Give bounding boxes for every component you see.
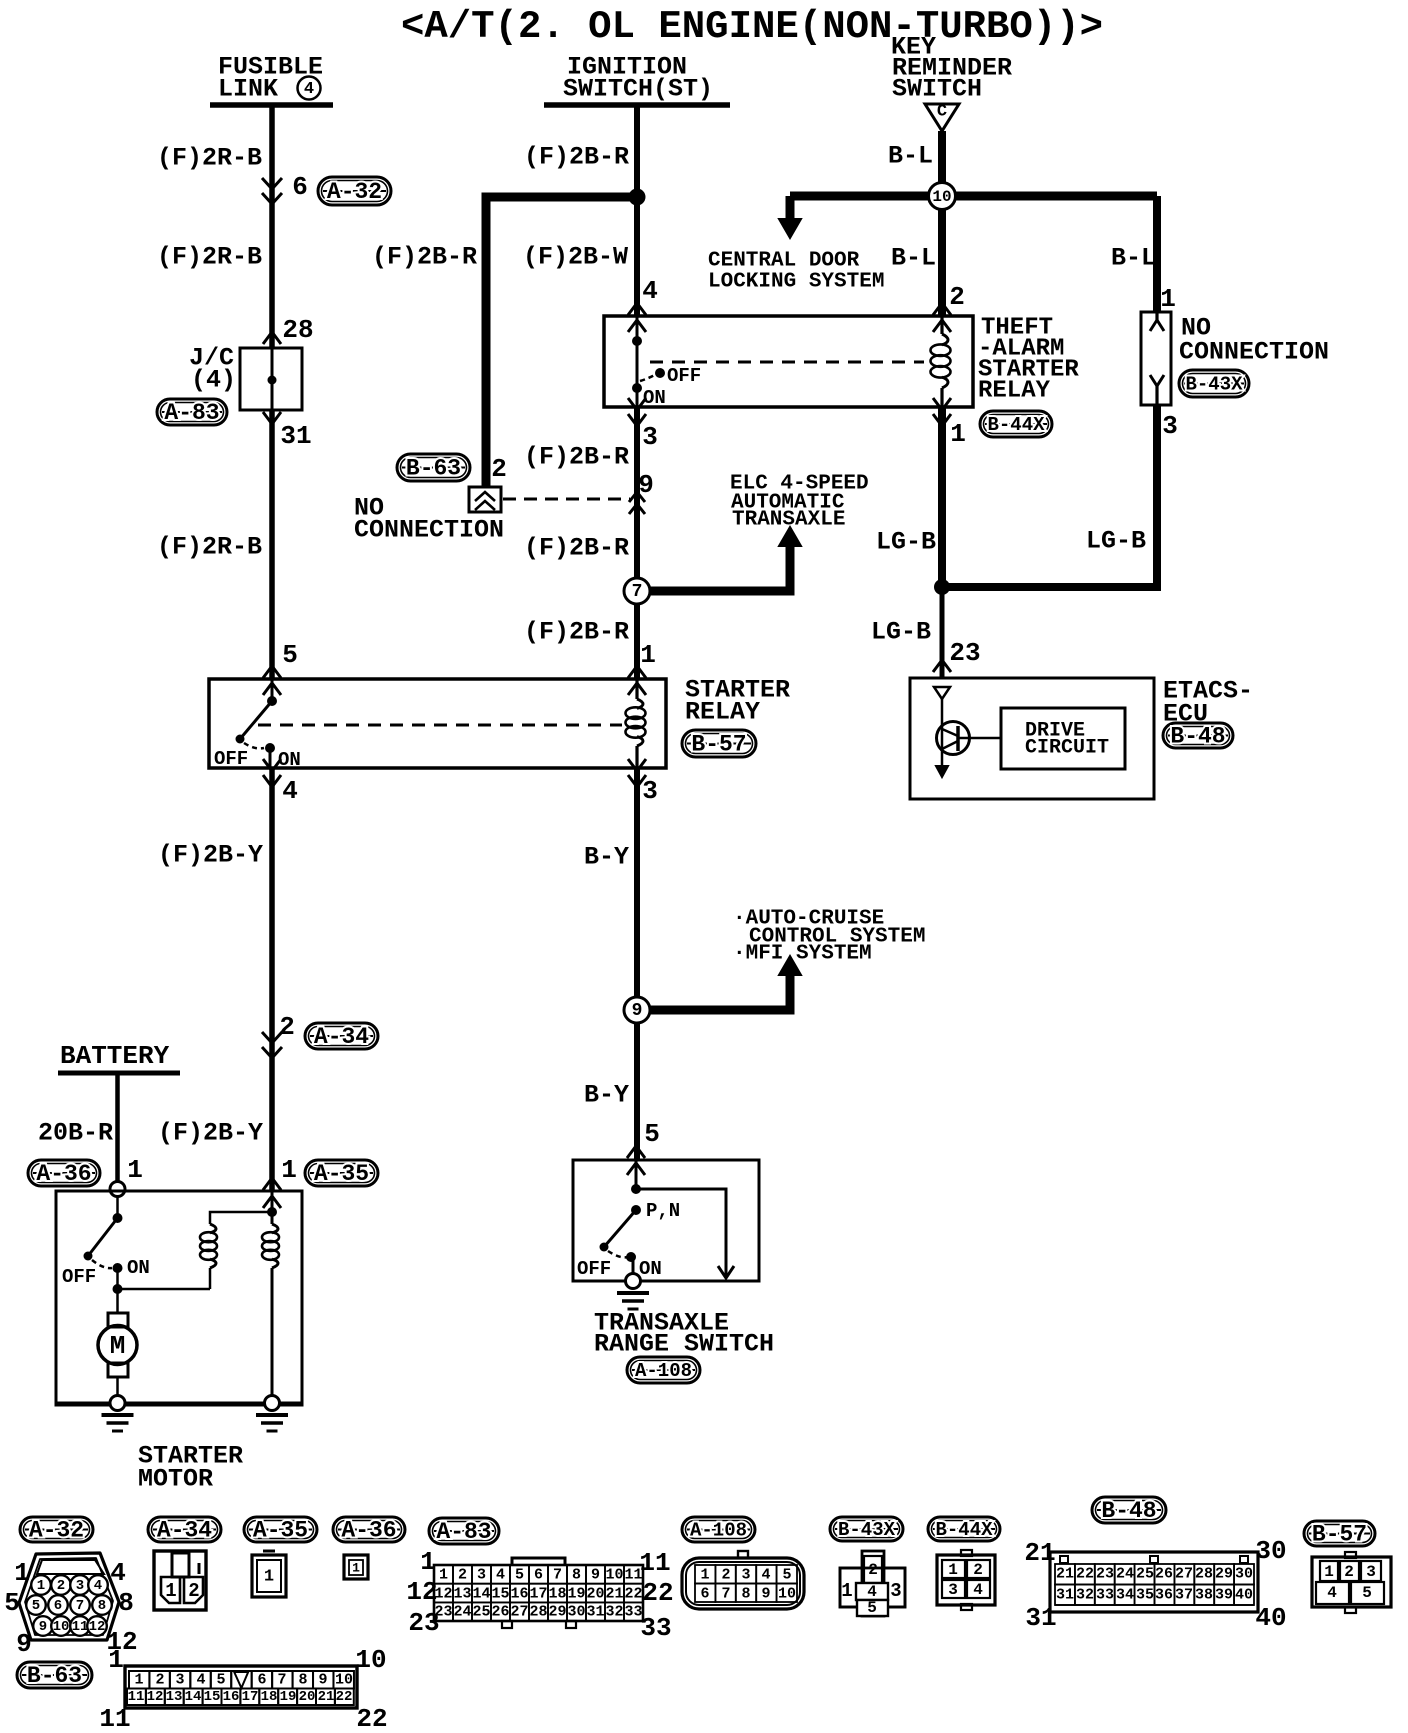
connector label stadium A-108 bottom <box>682 1517 755 1542</box>
connector label stadium B-48 bottom <box>1092 1497 1166 1523</box>
A-83 cell 33 <box>624 1602 643 1621</box>
relay box STARTER RELAY <box>209 679 666 768</box>
svg-text:24: 24 <box>453 1604 471 1621</box>
A-32 cavity 11 <box>70 1616 90 1636</box>
svg-text:(F)2R-B: (F)2R-B <box>157 533 262 562</box>
B-43X cavity 4 box <box>856 1583 888 1600</box>
pin chevron entering starter motor from A-35 <box>263 1178 281 1190</box>
svg-text:3: 3 <box>175 1672 184 1689</box>
B-48 cell 32 <box>1075 1585 1095 1606</box>
B-63 cell top 2 <box>149 1671 169 1689</box>
B-48 cell 23 <box>1095 1564 1115 1585</box>
svg-text:30: 30 <box>1255 1536 1286 1566</box>
svg-text:B-48: B-48 <box>1101 1498 1156 1524</box>
svg-text:21: 21 <box>605 1586 623 1603</box>
svg-text:10: 10 <box>778 1586 796 1603</box>
pull-in coil top lead <box>210 1212 272 1224</box>
svg-text:10: 10 <box>932 188 951 206</box>
connector label stadium B-57 <box>682 730 756 757</box>
svg-text:A-83: A-83 <box>164 400 219 426</box>
battery terminal circle on starter motor box <box>110 1182 125 1197</box>
wire LG-B key reminder column to ETACS <box>938 407 946 587</box>
connector label stadium A-108 body <box>627 1357 700 1383</box>
B-48 top tabs <box>1060 1556 1068 1563</box>
svg-text:B-44X: B-44X <box>935 1519 993 1541</box>
svg-text:SWITCH: SWITCH <box>892 75 982 104</box>
svg-text:2: 2 <box>458 1567 467 1584</box>
svg-text:4: 4 <box>304 80 314 99</box>
A-83 cell 4 <box>491 1565 510 1584</box>
A-108 cell 3 <box>736 1565 756 1584</box>
A-32 cavity 8 <box>92 1595 112 1615</box>
hold coil junction dot <box>267 1207 277 1217</box>
wire (F)2B-R ignition column top segment <box>634 105 640 316</box>
dashed link B-63 to pin 9 <box>503 498 630 501</box>
svg-text:4: 4 <box>110 1558 126 1588</box>
svg-text:CENTRAL DOOR: CENTRAL DOOR <box>708 250 860 273</box>
starter relay coil wire to pin 3 <box>635 746 638 768</box>
svg-text:(F)2B-R: (F)2B-R <box>372 243 477 272</box>
A-108 cell 1 <box>695 1565 715 1584</box>
connector label stadium A-35 <box>305 1160 378 1186</box>
B-57 cavity 4 <box>1316 1582 1349 1604</box>
svg-text:4: 4 <box>1327 1584 1337 1602</box>
svg-text:38: 38 <box>1195 1587 1213 1604</box>
svg-text:B-Y: B-Y <box>584 843 629 872</box>
svg-text:22: 22 <box>642 1578 673 1608</box>
svg-text:2: 2 <box>279 1012 295 1042</box>
B-57 cavity 3 <box>1361 1561 1381 1581</box>
A-83 cell 29 <box>548 1602 567 1621</box>
connector label stadium B-63 <box>397 454 470 481</box>
theft relay coil <box>942 334 948 345</box>
starter motor switch arm tip dot <box>84 1252 93 1261</box>
svg-text:A-108: A-108 <box>690 1520 747 1542</box>
pin chevron exiting J/C <box>263 412 281 424</box>
connector B-43X face <box>840 1568 905 1607</box>
A-83 cell 27 <box>510 1602 529 1621</box>
B-63 cell top 6 <box>252 1671 272 1689</box>
wire B-L from key reminder switch <box>938 131 946 316</box>
svg-text:A-35: A-35 <box>253 1518 308 1544</box>
A-83 cell 26 <box>491 1602 510 1621</box>
svg-text:5: 5 <box>216 1672 225 1689</box>
transaxle case ground circle <box>626 1274 641 1289</box>
starter relay wire to pin 4 <box>269 748 272 768</box>
connector label stadium A-35 bottom <box>244 1517 317 1542</box>
motor M symbol <box>98 1326 137 1365</box>
circled splice 7 <box>624 578 650 604</box>
ETACS wire triangle to transistor <box>941 699 944 766</box>
svg-text:CIRCUIT: CIRCUIT <box>1025 737 1109 760</box>
svg-text:4: 4 <box>94 1578 102 1594</box>
B-44X cavity 2 <box>967 1560 990 1578</box>
connector A-108 face <box>682 1558 804 1609</box>
svg-text:OFF: OFF <box>62 1266 96 1288</box>
svg-text:5: 5 <box>644 1119 660 1149</box>
A-108 cell 5 <box>777 1565 797 1584</box>
svg-text:CONNECTION: CONNECTION <box>354 516 504 545</box>
ground terminal circle left <box>110 1396 125 1411</box>
svg-text:(F)2B-R: (F)2B-R <box>524 534 629 563</box>
no-connection box B-43X <box>1141 312 1171 405</box>
svg-text:B-57: B-57 <box>691 732 746 758</box>
B-48 cell 27 <box>1174 1564 1194 1585</box>
svg-text:33: 33 <box>1096 1587 1114 1604</box>
svg-text:35: 35 <box>1136 1587 1154 1604</box>
connector label stadium A-32 bottom <box>20 1517 93 1542</box>
svg-text:11: 11 <box>639 1548 670 1578</box>
starter relay coil <box>637 699 643 708</box>
svg-text:1: 1 <box>1160 284 1176 314</box>
svg-text:3: 3 <box>741 1567 750 1584</box>
connector A-32 inline marker on wire <box>262 178 282 204</box>
B-48 cell 30 <box>1234 1564 1254 1585</box>
theft relay dashed actuation line <box>650 361 924 364</box>
svg-text:30: 30 <box>567 1604 585 1621</box>
svg-text:A-108: A-108 <box>635 1360 692 1382</box>
svg-text:A-36: A-36 <box>341 1518 396 1544</box>
theft relay coil wire to pin 1 <box>940 388 943 407</box>
A-83 cell 18 <box>548 1584 567 1603</box>
svg-text:9: 9 <box>638 470 654 500</box>
svg-text:B-57: B-57 <box>1312 1522 1367 1548</box>
B-44X cavity 4 <box>967 1580 990 1598</box>
connector A-36 face <box>344 1555 368 1579</box>
junction dot inside J/C <box>268 376 277 385</box>
transaxle switch arm tip dot <box>600 1243 609 1252</box>
svg-text:OFF: OFF <box>577 1258 611 1280</box>
connector B-48 face <box>1050 1552 1258 1612</box>
svg-text:19: 19 <box>280 1689 297 1705</box>
svg-text:B-43X: B-43X <box>838 1519 896 1541</box>
theft relay switch wire from pin 4 <box>636 316 639 341</box>
B-63 cell top keyway <box>231 1671 251 1689</box>
B-63 cell 12 <box>146 1689 165 1706</box>
B-63 cell top 4 <box>190 1671 210 1689</box>
svg-text:2: 2 <box>973 1561 983 1579</box>
transaxle switch wire from pin 5 <box>635 1160 638 1189</box>
svg-text:1: 1 <box>14 1558 30 1588</box>
A-32 cavity 1 <box>31 1575 51 1595</box>
svg-text:9: 9 <box>16 1629 32 1659</box>
svg-text:23: 23 <box>1096 1566 1114 1583</box>
svg-text:29: 29 <box>1215 1566 1233 1583</box>
motor brush lower <box>108 1363 128 1377</box>
B-63 cell 16 <box>222 1689 241 1706</box>
B-57 cavity 5 <box>1351 1582 1384 1604</box>
ignition switch bus bar <box>544 102 730 108</box>
A-83 cell 2 <box>453 1565 472 1584</box>
wire motor to ground <box>116 1377 119 1398</box>
svg-text:(F)2B-R: (F)2B-R <box>524 143 629 172</box>
svg-text:10: 10 <box>355 1645 386 1675</box>
motor brush upper <box>108 1313 128 1327</box>
svg-text:6: 6 <box>54 1598 62 1614</box>
A-83 cell 17 <box>529 1584 548 1603</box>
wire (F)2R-B segment to starter relay <box>269 410 275 679</box>
connector A-108 tab <box>738 1551 748 1558</box>
svg-text:8: 8 <box>98 1598 106 1614</box>
svg-text:5: 5 <box>515 1567 524 1584</box>
starter relay OFF contact dot <box>236 735 245 744</box>
svg-text:LG-B: LG-B <box>871 618 931 647</box>
svg-text:14: 14 <box>472 1586 490 1603</box>
svg-text:4: 4 <box>761 1567 770 1584</box>
starter motor switch pivot dot <box>113 1213 123 1223</box>
svg-text:B-L: B-L <box>1111 244 1156 273</box>
A-83 cell 14 <box>472 1584 491 1603</box>
connector label stadium B-44X <box>980 411 1052 437</box>
svg-text:1: 1 <box>352 1561 360 1576</box>
wire coil return horizontal <box>118 1288 211 1291</box>
svg-text:10: 10 <box>53 1619 70 1635</box>
B-48 cell 25 <box>1135 1564 1155 1585</box>
wire transistor to drive circuit <box>958 737 1001 740</box>
A-83 cell 7 <box>548 1565 567 1584</box>
svg-text:(F)2R-B: (F)2R-B <box>157 243 262 272</box>
theft relay dashed OFF link <box>640 374 656 381</box>
arrow stub to central door locking system <box>786 196 795 221</box>
theft relay wire to pin 3 <box>636 388 639 407</box>
pin 23 chevron entering ETACS <box>933 660 951 672</box>
B-48 inner bottom line <box>1055 1604 1254 1606</box>
svg-text:23: 23 <box>949 638 980 668</box>
A-108 cell 10 <box>777 1584 797 1603</box>
svg-text:4: 4 <box>973 1581 983 1599</box>
A-108 cell 9 <box>756 1584 776 1603</box>
svg-text:B-L: B-L <box>891 244 936 273</box>
ground terminal circle right <box>265 1396 280 1411</box>
svg-text:3: 3 <box>76 1578 84 1594</box>
svg-text:OFF: OFF <box>667 365 701 387</box>
A-108 cell 6 <box>695 1584 715 1603</box>
B-48 cell 22 <box>1075 1564 1095 1585</box>
svg-text:12: 12 <box>147 1689 164 1705</box>
svg-text:CONNECTION: CONNECTION <box>1179 338 1329 367</box>
svg-text:5: 5 <box>867 1599 877 1617</box>
svg-text:19: 19 <box>567 1586 585 1603</box>
junction node ignition/B-63 branch <box>629 189 646 206</box>
svg-text:2: 2 <box>721 1567 730 1584</box>
svg-text:12: 12 <box>406 1577 437 1607</box>
connector A-34 inline marker on wire <box>262 1032 282 1058</box>
ground symbol right <box>256 1413 288 1417</box>
svg-text:MOTOR: MOTOR <box>138 1465 213 1494</box>
svg-text:6: 6 <box>534 1567 543 1584</box>
circled 4 of fusible link <box>298 77 321 100</box>
svg-text:1: 1 <box>1324 1563 1334 1581</box>
svg-text:1: 1 <box>264 1568 274 1587</box>
wire through J/C box <box>271 348 274 410</box>
A-32 cavity 9 <box>33 1616 53 1636</box>
theft relay coil wire from pin 2 <box>940 316 943 334</box>
svg-text:6: 6 <box>700 1586 709 1603</box>
connector label stadium A-83 <box>157 399 227 425</box>
A-83 cell 25 <box>472 1602 491 1621</box>
svg-text:31: 31 <box>1056 1587 1074 1604</box>
starter relay switch wire from pin 5 <box>271 679 274 701</box>
theft relay switch arm (ON position) <box>636 341 639 388</box>
connector B-63 face <box>125 1666 357 1708</box>
svg-text:B-48: B-48 <box>1170 724 1225 750</box>
svg-text:(F)2B-Y: (F)2B-Y <box>158 841 263 870</box>
wire LG-B to ETACS ECU <box>940 587 945 678</box>
A-32 cavity 2 <box>51 1575 71 1595</box>
svg-text:5: 5 <box>282 640 298 670</box>
svg-text:9: 9 <box>591 1567 600 1584</box>
wire A-35 into motor box <box>271 1191 274 1224</box>
svg-text:4: 4 <box>496 1567 505 1584</box>
component box STARTER MOTOR <box>56 1191 302 1405</box>
B-63 cell 21 <box>316 1689 335 1706</box>
svg-text:1: 1 <box>841 1580 852 1602</box>
svg-text:3: 3 <box>477 1567 486 1584</box>
pin 1 chevrons entering starter relay <box>628 666 646 678</box>
svg-text:A-34: A-34 <box>314 1024 369 1050</box>
pin 3 chevron exiting starter relay <box>628 759 646 771</box>
svg-text:7: 7 <box>553 1567 562 1584</box>
B-63 cell top 9 <box>313 1671 333 1689</box>
A-32 cavity 3 <box>70 1575 90 1595</box>
ground symbol below transaxle range switch <box>617 1291 649 1295</box>
A-32 cavity 12 <box>87 1616 107 1636</box>
A-83 cell 6 <box>529 1565 548 1584</box>
circled splice 9 <box>624 997 650 1023</box>
starter motor dashed OFF-ON link <box>92 1260 112 1268</box>
B-63 cell 20 <box>297 1689 316 1706</box>
A-83 cell 1 <box>434 1565 453 1584</box>
A-108 cell 7 <box>715 1584 735 1603</box>
connector label stadium B-43X bottom <box>830 1517 903 1541</box>
svg-text:28: 28 <box>529 1604 547 1621</box>
svg-text:5: 5 <box>1362 1584 1372 1602</box>
B-63 cell 22 <box>335 1689 354 1706</box>
svg-text:C: C <box>937 103 947 122</box>
svg-text:3: 3 <box>642 422 658 452</box>
svg-text:24: 24 <box>1116 1566 1134 1583</box>
B-43X cavity 2 <box>864 1556 882 1583</box>
svg-text:25: 25 <box>1136 1566 1154 1583</box>
A-34 cavity 1 <box>161 1577 180 1603</box>
wire B-L right branch vertical <box>1153 196 1161 312</box>
svg-text:36: 36 <box>1155 1587 1173 1604</box>
svg-text:(F)2R-B: (F)2R-B <box>157 144 262 173</box>
svg-text:1: 1 <box>134 1672 143 1689</box>
svg-text:7: 7 <box>277 1672 286 1689</box>
B-63 cell top 5 <box>211 1671 231 1689</box>
pin 3 chevron exiting theft relay <box>628 398 646 410</box>
switch box TRANSAXLE RANGE SWITCH <box>573 1160 759 1281</box>
transaxle internal branch wire <box>636 1189 726 1278</box>
A-83 cell 10 <box>605 1565 624 1584</box>
junction node LG-B <box>934 579 950 595</box>
B-48 cell 39 <box>1214 1585 1234 1606</box>
svg-text:13: 13 <box>453 1586 471 1603</box>
svg-text:2: 2 <box>868 1561 878 1579</box>
pin 9 double chevron <box>629 492 645 502</box>
pin 5 chevrons entering starter relay <box>263 666 281 678</box>
svg-text:(F)2B-Y: (F)2B-Y <box>158 1119 263 1148</box>
svg-text:10: 10 <box>335 1672 353 1689</box>
hold-in coil <box>272 1224 278 1233</box>
starter relay dashed actuation line <box>258 724 622 727</box>
svg-text:ON: ON <box>127 1257 150 1279</box>
svg-text:7: 7 <box>721 1586 730 1603</box>
svg-text:8: 8 <box>741 1586 750 1603</box>
svg-text:15: 15 <box>491 1586 509 1603</box>
svg-text:20: 20 <box>299 1689 316 1705</box>
B-44X cavity 3 <box>942 1580 965 1598</box>
svg-text:3: 3 <box>642 776 658 806</box>
svg-text:ON: ON <box>639 1258 662 1280</box>
A-83 cell 21 <box>605 1584 624 1603</box>
svg-text:29: 29 <box>548 1604 566 1621</box>
svg-text:6: 6 <box>292 172 308 202</box>
svg-text:2: 2 <box>1344 1563 1354 1581</box>
connector label stadium A-83 bottom <box>429 1518 499 1544</box>
svg-text:13: 13 <box>166 1689 183 1705</box>
svg-text:21: 21 <box>318 1689 335 1705</box>
pin 1 chevron exiting theft relay coil <box>933 398 951 410</box>
connector label stadium A-36 bottom <box>333 1517 405 1542</box>
transaxle wire to ground <box>632 1257 635 1274</box>
junction dot switch/coil return <box>113 1284 123 1294</box>
svg-text:32: 32 <box>605 1604 623 1621</box>
B-63 cell top 1 <box>129 1671 149 1689</box>
circled splice 10 <box>929 183 956 210</box>
svg-text:14: 14 <box>185 1689 202 1705</box>
svg-text:4: 4 <box>196 1672 205 1689</box>
starter relay ON contact dot <box>265 743 275 753</box>
inline connector symbol B-63 <box>469 487 501 512</box>
transaxle ON contact dot <box>626 1252 636 1262</box>
svg-text:5: 5 <box>32 1598 40 1614</box>
svg-text:4: 4 <box>282 776 298 806</box>
battery bus bar <box>58 1071 180 1076</box>
svg-text:B-43X: B-43X <box>1185 374 1243 396</box>
svg-text:B-63: B-63 <box>406 456 461 482</box>
svg-text:A-32: A-32 <box>327 179 382 205</box>
B-48 cell 28 <box>1194 1564 1214 1585</box>
connector A-83 face grid <box>434 1565 643 1621</box>
svg-text:2: 2 <box>188 1580 199 1602</box>
connector label stadium A-36 <box>28 1160 100 1186</box>
transistor Q in ETACS <box>937 722 970 755</box>
svg-text:9: 9 <box>39 1619 47 1635</box>
svg-text:A-36: A-36 <box>36 1161 91 1187</box>
B-57 cavity 2 <box>1340 1561 1359 1581</box>
starter motor switch to coil junction wire <box>116 1268 119 1289</box>
A-83 cell 19 <box>567 1584 586 1603</box>
svg-text:8: 8 <box>118 1588 134 1618</box>
svg-text:9: 9 <box>318 1672 327 1689</box>
svg-text:B-L: B-L <box>888 142 933 171</box>
A-83 cell 8 <box>567 1565 586 1584</box>
svg-text:8: 8 <box>572 1567 581 1584</box>
svg-text:1: 1 <box>37 1578 45 1594</box>
B-57 cavity 1 <box>1320 1561 1338 1581</box>
svg-text:3: 3 <box>948 1581 958 1599</box>
svg-text:18: 18 <box>548 1586 566 1603</box>
svg-text:21: 21 <box>1056 1566 1074 1583</box>
connector A-35 face <box>263 1550 275 1553</box>
svg-text:SWITCH(ST): SWITCH(ST) <box>563 75 713 104</box>
B-63 cell top 7 <box>272 1671 292 1689</box>
connector B-57 tabs <box>1345 1552 1356 1558</box>
svg-text:10: 10 <box>605 1567 623 1584</box>
svg-text:31: 31 <box>1025 1603 1056 1633</box>
